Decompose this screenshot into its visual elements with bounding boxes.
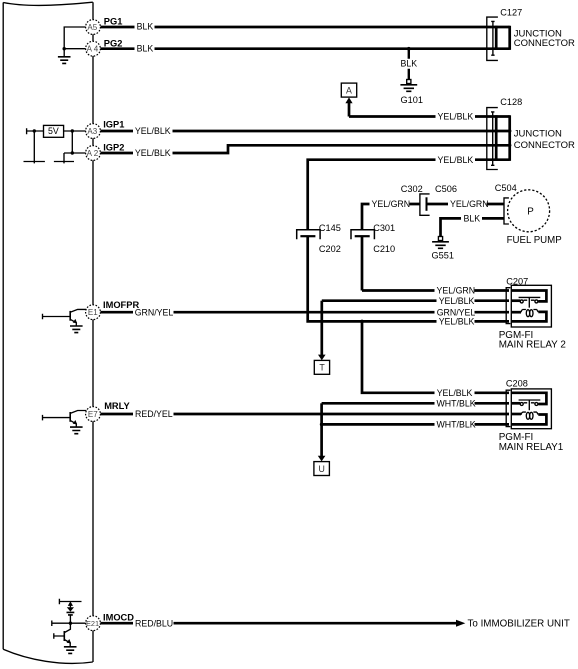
label RED/BLU on E21 wire (133, 618, 174, 628)
svg-text:C210: C210 (373, 244, 395, 254)
svg-text:C504: C504 (495, 183, 517, 193)
pin E7 (86, 401, 131, 422)
svg-text:PG2: PG2 (104, 38, 123, 48)
wire YEL/BLK: sheet A to C128 pin1 (349, 115, 510, 118)
transistor Q3 (64, 623, 70, 632)
svg-text:YEL/GRN: YEL/GRN (450, 199, 489, 209)
wire GRN/YEL: E1 to relay2 pin3 (100, 311, 509, 314)
pin A5 (86, 17, 123, 35)
ECU boundary left edge (2, 3, 4, 650)
wire RED/YEL: E7 to relay1 pin3 (100, 413, 509, 416)
svg-text:YEL/BLK: YEL/BLK (438, 112, 474, 122)
svg-text:IMOFPR: IMOFPR (103, 300, 139, 310)
ground (64, 647, 77, 654)
svg-text:A 2: A 2 (87, 149, 99, 158)
label RED/YEL on E7 wire (133, 409, 174, 419)
svg-text:C128: C128 (500, 97, 522, 107)
label WHT/BLK on relay1 pin2 (435, 398, 476, 408)
label BLK on PG2 wire (135, 43, 155, 53)
svg-text:A3: A3 (87, 127, 97, 136)
wire YEL/GRN: C506 to fuel pump C504 (427, 203, 505, 206)
svg-text:CONNECTOR: CONNECTOR (514, 38, 575, 49)
label YEL/BLK on relay2 pin2 (437, 296, 475, 306)
svg-text:MAIN RELAY 2: MAIN RELAY 2 (499, 340, 566, 351)
ground (internal, shared by A5/A4) (58, 27, 86, 63)
svg-text:CONNECTOR: CONNECTOR (514, 140, 575, 151)
svg-text:YEL/BLK: YEL/BLK (438, 155, 474, 165)
wire IGP2 YEL/BLK: A2 to C128 pin3 (100, 144, 511, 153)
svg-text:IGP1: IGP1 (103, 120, 124, 130)
label YEL/GRN on C302 wire left (370, 199, 411, 209)
transistor driver at E7 (43, 411, 87, 434)
svg-text:C302: C302 (401, 184, 423, 194)
sheet reference box A with arrow (341, 83, 356, 116)
PGM-FI main relay 1 (499, 389, 564, 453)
label WHT/BLK on relay1 pin4 (435, 420, 476, 430)
svg-text:WHT/BLK: WHT/BLK (437, 398, 476, 408)
svg-text:GRN/YEL: GRN/YEL (135, 307, 174, 317)
svg-text:C202: C202 (319, 244, 341, 254)
5V supply box (27, 125, 86, 137)
svg-text:C208: C208 (506, 379, 528, 389)
svg-text:A 4: A 4 (87, 45, 99, 54)
svg-text:YEL/GRN: YEL/GRN (437, 286, 476, 296)
node: 5V rail junctions and terminations (24, 129, 86, 163)
svg-text:G101: G101 (401, 95, 423, 105)
relay contact (519, 296, 541, 298)
wire WHT/BLK: relay1 pin2 lead (322, 402, 509, 405)
ECU pin header vertical line (92, 2, 94, 662)
wire YEL/BLK: relay2 pin2 lead from sheet T (322, 299, 509, 302)
connector C301 / C210 (inline, vertical wire) (351, 223, 395, 254)
ground G101 (399, 49, 423, 105)
svg-text:E21: E21 (86, 619, 99, 628)
svg-text:BLK: BLK (137, 22, 154, 32)
ECU boundary bottom torn edge (3, 649, 93, 663)
svg-text:MRLY: MRLY (104, 401, 130, 411)
sheet reference box U with arrow (314, 403, 330, 475)
svg-text:PG1: PG1 (104, 17, 123, 27)
ECU boundary top torn edge (3, 2, 93, 5)
pin A2 (86, 142, 125, 160)
PGM-FI main relay 2 (499, 285, 566, 350)
svg-text:YEL/BLK: YEL/BLK (439, 296, 475, 306)
svg-text:YEL/BLK: YEL/BLK (135, 126, 171, 136)
ground G551 (432, 237, 454, 261)
connector C145 / C202 (inline, vertical wire) (297, 223, 341, 254)
relay coil (526, 310, 529, 317)
label YEL/BLK on relay2 pin4 (437, 317, 475, 327)
pin E21 (86, 612, 135, 630)
wire YEL/GRN: relay2 pin1 up through C301/C210 to C302 (362, 204, 420, 291)
label BLK on pump ground wire (461, 214, 482, 224)
svg-text:JUNCTION: JUNCTION (514, 128, 562, 139)
junction connector C127 (487, 8, 575, 61)
pin A4 (86, 38, 123, 56)
svg-text:5V: 5V (48, 126, 59, 136)
svg-text:U: U (319, 464, 325, 474)
wire RED/BLU: E21 to immobilizer unit (100, 619, 569, 630)
label YEL/GRN on relay2 pin1 (435, 286, 476, 296)
label YEL/BLK on IGP2 wire (133, 148, 173, 158)
relay connector bracket C208 (506, 379, 528, 427)
relay contact (519, 399, 541, 401)
svg-text:G551: G551 (432, 250, 454, 260)
label YEL/BLK on IGP1 wire (133, 126, 173, 136)
transistor driver at E1 (43, 309, 87, 332)
svg-text:MAIN RELAY1: MAIN RELAY1 (499, 442, 564, 453)
label YEL/BLK on C128 pin4 wire (436, 155, 476, 165)
svg-text:BLK: BLK (137, 43, 154, 53)
svg-text:FUEL PUMP: FUEL PUMP (507, 235, 562, 246)
svg-text:T: T (319, 363, 325, 373)
svg-text:A: A (346, 85, 352, 95)
svg-text:P: P (527, 206, 534, 217)
wire PG2 BLK: A4 to C127 (100, 47, 509, 51)
svg-text:C145: C145 (319, 223, 341, 233)
wire PG1 BLK: A5 to C127 (100, 26, 509, 29)
svg-text:E7: E7 (88, 410, 98, 419)
svg-text:YEL/BLK: YEL/BLK (135, 148, 171, 158)
wire IGP1 YEL/BLK: A3 to C128 pin2 (100, 129, 511, 132)
wire YEL/BLK: C128 pin4 toward C145 (308, 160, 510, 230)
svg-text:BLK: BLK (464, 214, 481, 224)
relay connector bracket C207 (506, 277, 528, 324)
label GRN/YEL on E1 wire (133, 307, 174, 317)
svg-text:RED/YEL: RED/YEL (135, 409, 173, 419)
zener diode (67, 607, 74, 611)
svg-text:C301: C301 (373, 223, 395, 233)
svg-text:C506: C506 (435, 184, 457, 194)
svg-text:IMOCD: IMOCD (103, 612, 134, 622)
wire BLK: fuel pump to G551 (441, 218, 505, 236)
svg-text:YEL/BLK: YEL/BLK (439, 317, 475, 327)
svg-text:YEL/GRN: YEL/GRN (372, 199, 411, 209)
svg-text:WHT/BLK: WHT/BLK (437, 420, 476, 430)
label YEL/GRN on C506 to pump wire (448, 199, 489, 209)
svg-text:IGP2: IGP2 (103, 142, 124, 152)
svg-text:To IMMOBILIZER UNIT: To IMMOBILIZER UNIT (468, 619, 570, 630)
svg-text:BLK: BLK (401, 58, 418, 68)
sheet reference box T with arrow (314, 301, 329, 375)
label YEL/BLK on C128 pin1 wire (436, 112, 476, 122)
label GRN/YEL on relay2 pin3 (435, 307, 476, 317)
fuel pump C504 (495, 183, 562, 246)
label YEL/BLK on relay1 pin1 (435, 388, 475, 398)
IMOCD driver circuit at E21 (zener + transistor) (52, 599, 86, 654)
svg-text:RED/BLU: RED/BLU (135, 618, 173, 628)
svg-text:A5: A5 (87, 23, 97, 32)
wire YEL/BLK: branch down to relay1 pin1 (362, 321, 509, 392)
wire YEL/BLK: C202 down to relay2 pin4 (308, 236, 509, 323)
wire WHT/BLK: relay1 pin4 lead (322, 423, 509, 426)
wire YEL/GRN: relay2 pin1 lead (362, 289, 509, 292)
svg-text:E1: E1 (88, 308, 98, 317)
pin A3 (86, 120, 125, 139)
junction connector C128 (487, 97, 575, 169)
connector C302 / C506 (inline, horizontal wire) (401, 184, 457, 216)
relay coil (526, 412, 529, 419)
node: E21 base line (52, 621, 86, 627)
svg-text:C127: C127 (500, 8, 522, 18)
label BLK on PG1 wire (135, 22, 155, 32)
svg-text:YEL/BLK: YEL/BLK (437, 388, 473, 398)
pin E1 (86, 300, 140, 320)
